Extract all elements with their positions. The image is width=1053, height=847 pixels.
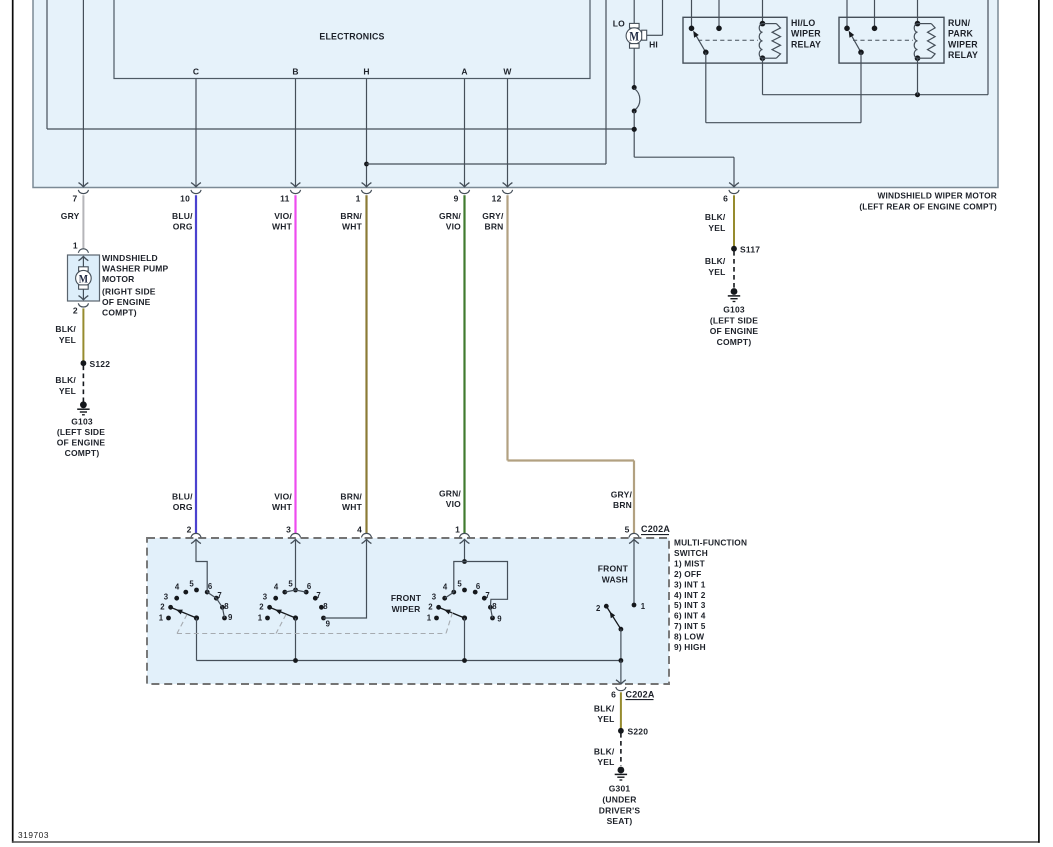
svg-text:RELAY: RELAY (948, 50, 978, 60)
svg-text:(UNDER: (UNDER (602, 794, 636, 804)
label VIO/WHT lower (272, 492, 293, 513)
svg-text:B: B (292, 67, 298, 77)
rotary switch SW1 (front wiper, contacts 1-9) (159, 545, 233, 660)
wire from top to circuit breaker node (47, 0, 635, 129)
svg-text:SEAT): SEAT) (607, 816, 633, 826)
svg-text:8: 8 (224, 602, 229, 611)
svg-text:WASHER PUMP: WASHER PUMP (102, 264, 169, 274)
label GRY/BRN lower (611, 490, 633, 511)
svg-text:YEL: YEL (59, 386, 76, 396)
connector pin 10 windshield wiper motor (180, 190, 201, 204)
connector pin 11 windshield wiper motor (280, 190, 300, 204)
svg-text:8) LOW: 8) LOW (674, 632, 704, 642)
svg-text:7: 7 (316, 591, 321, 600)
svg-text:7: 7 (72, 194, 77, 204)
svg-text:H: H (363, 67, 369, 77)
svg-text:1: 1 (159, 614, 164, 623)
svg-text:OF ENGINE: OF ENGINE (57, 438, 106, 448)
svg-text:FRONT: FRONT (391, 593, 422, 603)
multi-function switch box (147, 538, 669, 684)
wire GRY/BRN pin 12 to switch pin 5 (482, 195, 634, 533)
svg-text:9) HIGH: 9) HIGH (674, 642, 706, 652)
svg-text:4) INT 2: 4) INT 2 (674, 590, 706, 600)
label ground G103 right (710, 305, 759, 347)
svg-text:7) INT 5: 7) INT 5 (674, 621, 706, 631)
svg-text:2: 2 (596, 604, 601, 613)
svg-text:BRN/: BRN/ (340, 211, 362, 221)
electronics pin C (193, 67, 199, 77)
svg-text:3: 3 (164, 592, 169, 601)
wire VIO/WHT pin 11 to switch pin 3 (272, 195, 295, 533)
svg-text:9: 9 (326, 620, 331, 629)
connector pin 1 windshield wiper motor (356, 190, 372, 204)
label diagram number 319703 (18, 830, 49, 840)
svg-text:GRN/: GRN/ (439, 211, 461, 221)
rotary switch SW3 (front wiper, contacts 1-9) (427, 545, 508, 660)
svg-text:YEL: YEL (597, 757, 614, 767)
svg-text:ORG: ORG (173, 502, 193, 512)
label LO (613, 19, 625, 29)
svg-text:7: 7 (217, 591, 222, 600)
svg-text:VIO: VIO (446, 222, 461, 232)
rotary switch SW2 (front wiper, contacts 1-9) (258, 545, 367, 660)
svg-text:5: 5 (189, 580, 194, 589)
svg-text:1) MIST: 1) MIST (674, 559, 705, 569)
wire bus to pin 6 (616, 661, 626, 685)
splice S220 (618, 726, 648, 736)
arrow at switch pin 4 (362, 539, 372, 545)
connector pin 9 windshield wiper motor (454, 190, 470, 204)
windshield washer pump motor M2 (68, 255, 100, 301)
label washer pump motor (102, 253, 169, 318)
wire BRN/WHT pin 1 to switch pin 4 (340, 195, 366, 533)
svg-text:1: 1 (641, 602, 646, 611)
svg-text:DRIVER'S: DRIVER'S (599, 805, 641, 815)
svg-text:WHT: WHT (272, 502, 293, 512)
wire BLK/YEL switch pin 6 to S220 (594, 692, 621, 728)
svg-text:1: 1 (427, 614, 432, 623)
circuit breaker CB (motor lead) (632, 85, 640, 114)
arrow at switch pin 1 (460, 539, 470, 545)
ground G301 symbol (615, 767, 627, 780)
label FRONT WIPER (391, 593, 422, 614)
svg-text:1: 1 (258, 614, 263, 623)
front wash switch SW4 (596, 545, 646, 660)
svg-text:11: 11 (280, 194, 289, 204)
svg-text:(LEFT SIDE: (LEFT SIDE (57, 427, 105, 437)
svg-text:4: 4 (357, 525, 362, 535)
svg-text:6: 6 (208, 582, 213, 591)
svg-text:BLK/: BLK/ (55, 324, 76, 334)
svg-text:SWITCH: SWITCH (674, 548, 708, 558)
label FRONT WASH (598, 564, 629, 585)
svg-text:GRY/: GRY/ (611, 490, 633, 500)
connector C202A pin 3 (286, 525, 301, 538)
svg-text:GRY/: GRY/ (482, 211, 504, 221)
svg-text:BLU/: BLU/ (172, 492, 193, 502)
svg-text:WHT: WHT (342, 502, 363, 512)
svg-text:BLK/: BLK/ (55, 375, 76, 385)
wire motor to circuit breaker (633, 48, 635, 87)
svg-text:1: 1 (356, 194, 361, 204)
svg-text:7: 7 (485, 591, 490, 600)
svg-text:G103: G103 (723, 305, 745, 315)
svg-text:OF ENGINE: OF ENGINE (710, 326, 759, 336)
svg-text:BLK/: BLK/ (594, 747, 615, 757)
wire GRY pin 7 to washer pump (61, 195, 84, 248)
connector C202A pin 6 (611, 687, 626, 700)
connector pin 2 washer pump (73, 303, 89, 315)
svg-text:WINDSHIELD WIPER MOTOR: WINDSHIELD WIPER MOTOR (878, 191, 997, 201)
wire circuit breaker to pin 6 (632, 111, 739, 187)
svg-text:MULTI-FUNCTION: MULTI-FUNCTION (674, 538, 747, 548)
label windshield wiper motor location (859, 191, 997, 212)
relay K1 HI/LO WIPER RELAY (683, 0, 787, 63)
arrow at switch pin 2 (191, 539, 201, 545)
wire BLK/YEL washer pump to S122 (55, 308, 83, 360)
svg-text:3: 3 (263, 592, 268, 601)
svg-text:S220: S220 (628, 726, 649, 736)
svg-text:ORG: ORG (173, 222, 193, 232)
svg-text:WASH: WASH (602, 575, 628, 585)
svg-text:(LEFT SIDE: (LEFT SIDE (710, 315, 758, 325)
svg-text:6: 6 (307, 582, 312, 591)
svg-text:8: 8 (323, 602, 328, 611)
svg-text:(RIGHT SIDE: (RIGHT SIDE (102, 287, 156, 297)
wire BLU/ORG pin 10 to switch pin 2 (172, 195, 196, 533)
label connector C202A bottom (626, 689, 655, 699)
wire pin 7 GRY feed (79, 0, 89, 187)
svg-text:RUN/: RUN/ (948, 18, 971, 28)
wire BLK/YEL S122 to G103 (55, 366, 83, 402)
electronics pin H (363, 67, 369, 77)
wire BLK/YEL pin 6 (705, 195, 734, 246)
label MULTI-FUNCTION SWITCH legend (674, 538, 747, 652)
svg-text:HI: HI (649, 40, 658, 50)
svg-text:C202A: C202A (641, 524, 670, 534)
svg-text:2: 2 (160, 603, 165, 612)
label ground G103 left (57, 417, 106, 459)
label GRN/VIO lower (439, 489, 461, 510)
svg-text:G301: G301 (609, 784, 631, 794)
wire electronics A to pin 9 (460, 79, 470, 187)
wire switch common bus (197, 658, 624, 663)
svg-text:PARK: PARK (948, 29, 974, 39)
wiper motor M1 (LO/HI) (626, 0, 647, 48)
svg-text:3) INT 1: 3) INT 1 (674, 579, 706, 589)
svg-text:OF ENGINE: OF ENGINE (102, 297, 151, 307)
svg-text:WINDSHIELD: WINDSHIELD (102, 253, 158, 263)
svg-text:2: 2 (73, 306, 78, 316)
svg-text:6: 6 (476, 582, 481, 591)
wire electronics W to pin 12 (503, 79, 513, 187)
svg-text:MOTOR: MOTOR (102, 274, 134, 284)
svg-text:BRN: BRN (613, 500, 632, 510)
svg-text:2: 2 (428, 603, 433, 612)
electronics pin B (292, 67, 298, 77)
svg-text:RELAY: RELAY (791, 39, 821, 49)
svg-text:YEL: YEL (597, 714, 614, 724)
wire motor HI brush to top (647, 0, 663, 35)
svg-text:YEL: YEL (59, 335, 76, 345)
svg-text:COMPT): COMPT) (717, 337, 752, 347)
relay K2 RUN/PARK WIPER RELAY (839, 0, 944, 123)
label BRN/WHT lower (340, 492, 362, 513)
wire branch H node to top (364, 0, 606, 166)
svg-text:4: 4 (443, 583, 448, 592)
svg-text:12: 12 (492, 194, 502, 204)
svg-text:5: 5 (625, 525, 630, 535)
svg-text:(LEFT REAR OF ENGINE COMPT): (LEFT REAR OF ENGINE COMPT) (859, 202, 997, 212)
svg-text:COMPT): COMPT) (65, 448, 100, 458)
svg-text:9: 9 (497, 614, 502, 623)
svg-text:VIO/: VIO/ (274, 492, 292, 502)
svg-text:LO: LO (613, 19, 625, 29)
svg-text:W: W (503, 67, 512, 77)
electronics pin W (503, 67, 512, 77)
connector pin 6 windshield wiper motor (723, 190, 739, 204)
label HI/LO WIPER RELAY (791, 18, 821, 50)
svg-text:BLK/: BLK/ (705, 256, 726, 266)
svg-text:9: 9 (454, 194, 459, 204)
connector C202A pin 5 (625, 525, 640, 538)
wire GRN/VIO pin 9 to switch pin 1 (439, 195, 465, 533)
svg-text:C: C (193, 67, 199, 77)
label RUN/PARK WIPER RELAY (948, 18, 978, 60)
svg-text:M: M (629, 30, 639, 43)
wire electronics C to pin 10 (191, 79, 201, 187)
svg-text:5: 5 (288, 580, 293, 589)
connector pin 12 windshield wiper motor (492, 190, 513, 204)
connector pin 1 washer pump (73, 241, 89, 253)
label BLU/ORG lower (172, 492, 193, 513)
svg-text:6) INT 4: 6) INT 4 (674, 611, 706, 621)
electronics pin A (461, 67, 467, 77)
svg-text:9: 9 (228, 613, 233, 622)
svg-text:5: 5 (457, 580, 462, 589)
svg-text:WHT: WHT (342, 222, 363, 232)
connector C202A pin 2 (187, 525, 202, 538)
label HI (649, 40, 658, 50)
svg-text:BRN/: BRN/ (340, 492, 362, 502)
svg-text:WIPER: WIPER (392, 604, 421, 614)
electronics module box (114, 0, 590, 79)
connector pin 7 windshield wiper motor (72, 190, 88, 204)
svg-text:WIPER: WIPER (791, 29, 821, 39)
arrow at switch pin 5 (629, 539, 639, 545)
svg-text:BLK/: BLK/ (594, 704, 615, 714)
ground G103 symbol left (77, 401, 89, 414)
splice S122 (81, 359, 111, 369)
wire BLK/YEL S117 to G103 (705, 251, 734, 288)
svg-text:BRN: BRN (484, 222, 503, 232)
wire BLK/YEL S220 to G301 (594, 733, 621, 767)
svg-text:319703: 319703 (18, 830, 49, 840)
svg-text:5) INT 3: 5) INT 3 (674, 600, 706, 610)
svg-text:GRN/: GRN/ (439, 489, 461, 499)
wire electronics B to pin 11 (291, 79, 301, 187)
svg-text:2: 2 (187, 525, 192, 535)
svg-text:WHT: WHT (272, 222, 293, 232)
arrow at switch pin 3 (291, 539, 301, 545)
svg-text:4: 4 (274, 583, 279, 592)
wire relay coils common to top (763, 0, 989, 97)
svg-text:S122: S122 (90, 359, 111, 369)
svg-text:WIPER: WIPER (948, 39, 978, 49)
wire K1 switch arm to K2 arm (706, 52, 861, 122)
svg-text:1: 1 (455, 525, 460, 535)
svg-text:ELECTRONICS: ELECTRONICS (319, 32, 384, 42)
svg-text:G103: G103 (71, 417, 93, 427)
svg-text:YEL: YEL (708, 267, 725, 277)
windshield wiper motor assembly box (33, 0, 998, 188)
connector C202A pin 4 (357, 525, 372, 538)
svg-text:3: 3 (286, 525, 291, 535)
svg-text:COMPT): COMPT) (102, 308, 137, 318)
relay K2 coil (914, 0, 935, 95)
svg-text:VIO/: VIO/ (274, 211, 292, 221)
mechanical linkage (dashed) (177, 613, 453, 634)
svg-text:HI/LO: HI/LO (791, 18, 815, 28)
splice S117 (731, 244, 760, 254)
svg-text:8: 8 (492, 602, 497, 611)
label connector C202A top (641, 524, 670, 534)
svg-text:VIO: VIO (446, 499, 461, 509)
connector C202A pin 1 (455, 525, 470, 538)
svg-text:4: 4 (175, 583, 180, 592)
svg-text:BLU/: BLU/ (172, 211, 193, 221)
ground G103 symbol (728, 288, 740, 301)
svg-text:C202A: C202A (626, 689, 655, 699)
svg-text:10: 10 (180, 194, 190, 204)
svg-text:M: M (79, 273, 89, 286)
svg-text:BLK/: BLK/ (705, 212, 726, 222)
svg-text:2: 2 (259, 603, 264, 612)
svg-text:1: 1 (73, 241, 78, 251)
svg-text:3: 3 (432, 592, 437, 601)
svg-text:S117: S117 (740, 244, 760, 254)
svg-text:GRY: GRY (61, 211, 80, 221)
svg-text:A: A (461, 67, 467, 77)
svg-text:FRONT: FRONT (598, 564, 629, 574)
label ground G301 (599, 784, 641, 827)
svg-text:2) OFF: 2) OFF (674, 569, 701, 579)
svg-text:YEL: YEL (708, 223, 725, 233)
relay K1 coil (759, 0, 780, 61)
svg-text:6: 6 (723, 194, 728, 204)
wire electronics H to pin 1 (362, 79, 372, 187)
svg-text:6: 6 (611, 690, 616, 700)
